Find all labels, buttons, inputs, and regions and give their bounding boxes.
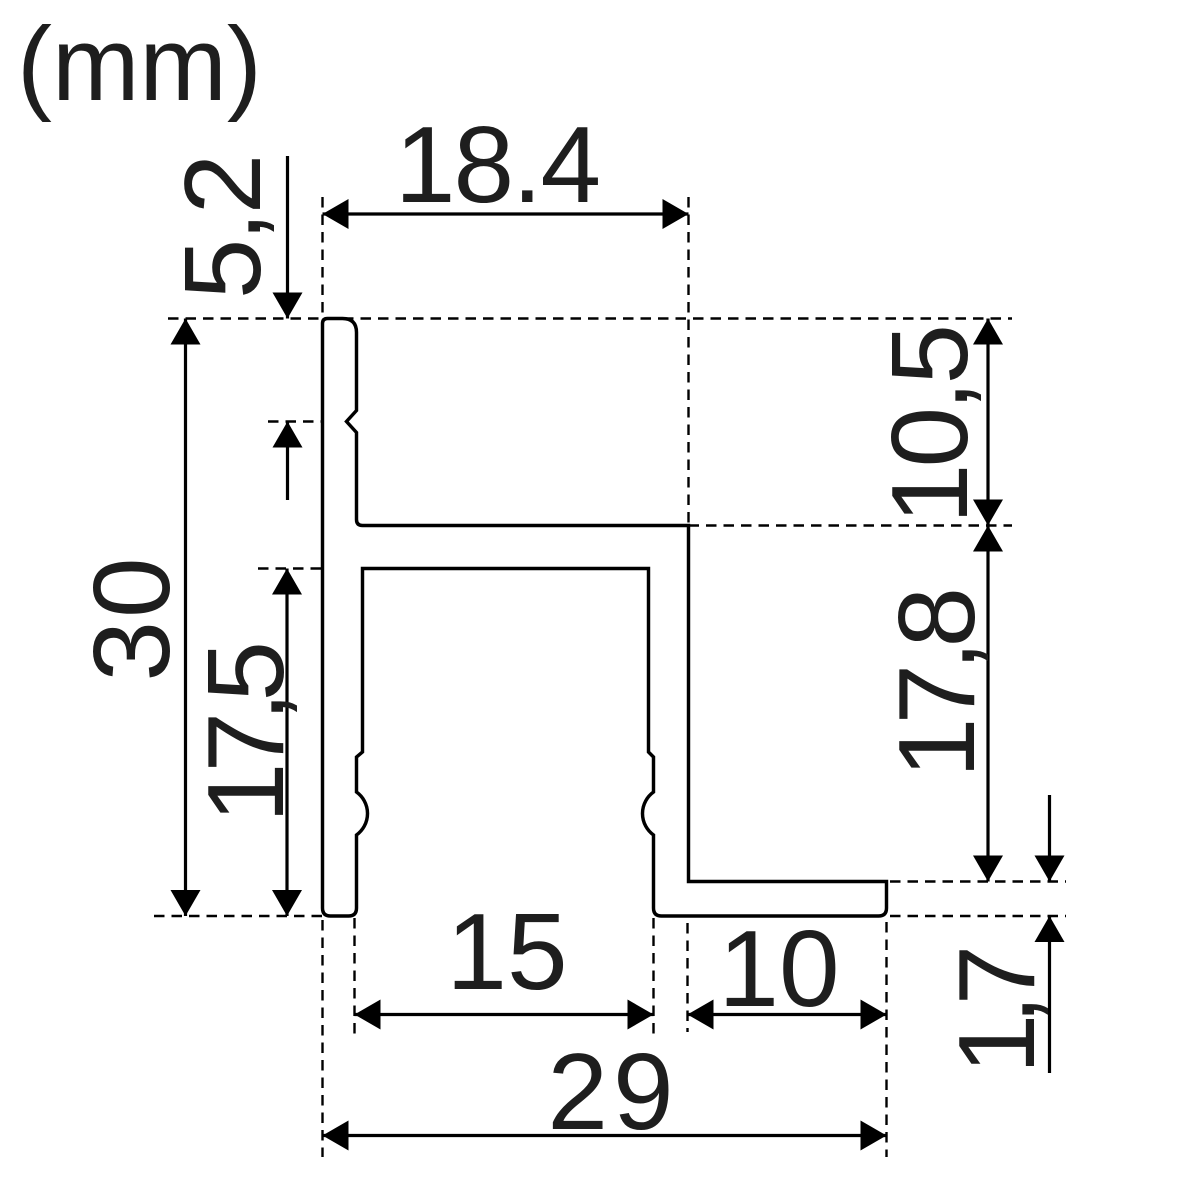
- svg-text:17,5: 17,5: [185, 645, 307, 824]
- dim tail 1,7 upper: [1048, 795, 1051, 882]
- arrowhead 17,5 top (up): [272, 569, 302, 595]
- dim line 10,5: [986, 319, 989, 526]
- svg-text:29: 29: [547, 1031, 678, 1153]
- dashed extension lines: [154, 197, 1066, 1157]
- dim line 15: [355, 1013, 654, 1016]
- arrowhead 29 right: [861, 1121, 887, 1151]
- dim tail 1,7 lower: [1048, 916, 1051, 1073]
- arrowhead 1,7 lower (up): [1035, 916, 1065, 942]
- extension line vertical 15 right: [652, 918, 654, 1037]
- extension line bottom left (30 bottom ref): [154, 915, 322, 917]
- svg-text:18.4: 18.4: [395, 104, 599, 226]
- arrowhead 18.4 left: [323, 199, 349, 229]
- svg-text:30: 30: [71, 554, 193, 681]
- extension line flange top (1,7 top ref): [890, 880, 1066, 882]
- dim line 29: [323, 1134, 887, 1137]
- arrowhead 17,8 bottom (down): [973, 856, 1003, 882]
- extension line vertical 18.4 left: [321, 197, 323, 318]
- svg-text:15: 15: [446, 891, 567, 1013]
- svg-text:10,5: 10,5: [869, 328, 991, 525]
- dim line 17,5: [285, 569, 288, 917]
- arrowhead 17,8 top (up): [973, 526, 1003, 552]
- dim line 17,8: [986, 526, 989, 882]
- arrowhead 15 right: [628, 1000, 654, 1030]
- arrowhead 29 left: [323, 1121, 349, 1151]
- dim line 18.4: [323, 212, 689, 215]
- dimension lines and arrowheads: [186, 156, 1050, 1136]
- svg-text:5,2: 5,2: [162, 157, 284, 300]
- arrowhead 18.4 right: [663, 199, 689, 229]
- arrowhead 10 right: [861, 1000, 887, 1030]
- extension line vertical 29 right: [885, 922, 887, 1157]
- svg-text:(mm): (mm): [17, 6, 262, 123]
- dim line 10: [688, 1013, 887, 1016]
- extension line shelf top (10,5 bottom ref): [689, 524, 1013, 526]
- dim tail 5,2 lower: [286, 422, 289, 501]
- arrowhead 5,2 upper (down): [273, 293, 303, 319]
- svg-text:17,8: 17,8: [876, 592, 998, 779]
- svg-text:10: 10: [718, 908, 839, 1030]
- extension line top (30mm top ref): [168, 317, 1012, 319]
- extension line notch ref (5,2 bottom): [268, 420, 322, 422]
- extension line vertical 10 left: [686, 888, 688, 1032]
- arrowhead 17,5 bottom (down): [272, 890, 302, 916]
- arrowhead 10,5 bottom (down): [973, 500, 1003, 526]
- arrowhead 15 left: [355, 1000, 381, 1030]
- extension line channel ceiling (17,5 top ref): [258, 567, 356, 569]
- arrowhead 10,5 top (up): [973, 319, 1003, 345]
- arrowhead 30 bottom (down): [171, 890, 201, 916]
- extension line vertical 18.4 right: [687, 197, 689, 525]
- profile cross-section outline: [323, 319, 887, 917]
- arrowhead 1,7 upper (down): [1035, 856, 1065, 882]
- svg-text:1,7: 1,7: [936, 949, 1058, 1074]
- arrowhead 10 left: [688, 1000, 714, 1030]
- arrowhead 30 top (up): [171, 319, 201, 345]
- dim tail 5,2 upper: [286, 156, 289, 319]
- extension line vertical 15 left: [353, 918, 355, 1037]
- extension line bottom right (1,7 bottom ref): [890, 915, 1066, 917]
- extension line vertical 29 left: [321, 920, 323, 1157]
- arrowhead 5,2 lower (up): [273, 422, 303, 448]
- dim line 30: [184, 319, 187, 917]
